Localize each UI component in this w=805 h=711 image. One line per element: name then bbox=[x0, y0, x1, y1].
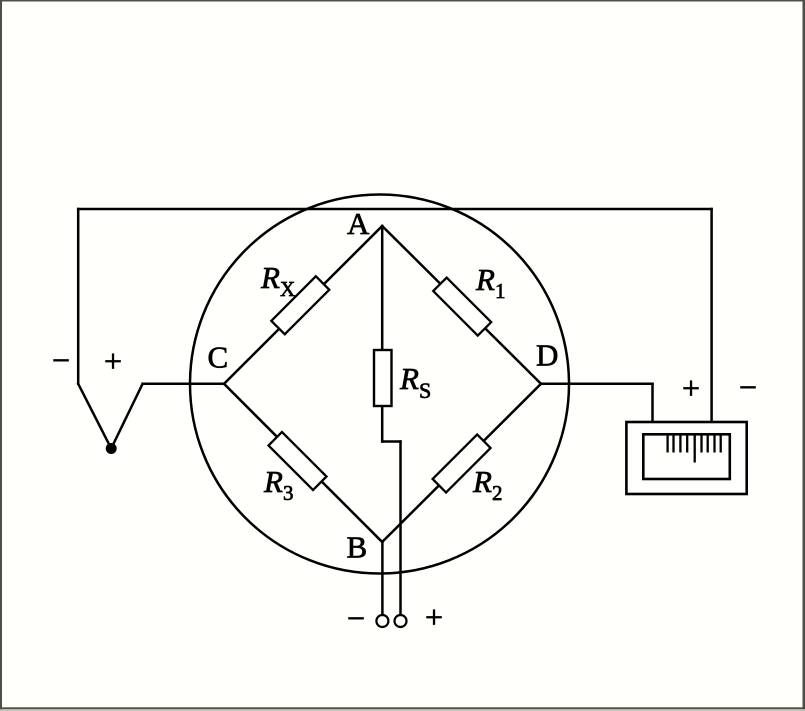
svg-text:D: D bbox=[536, 338, 558, 373]
resistor R1 body bbox=[433, 278, 491, 336]
svg-text:+: + bbox=[682, 370, 700, 406]
wire arm D to B bbox=[382, 384, 541, 542]
wire middle A down to Rs bbox=[381, 226, 384, 350]
wire down into meter left bbox=[651, 384, 654, 422]
svg-text:C: C bbox=[208, 340, 229, 375]
wire left horizontal to C bbox=[143, 383, 224, 386]
svg-text:A: A bbox=[347, 206, 370, 241]
window frame left border bbox=[0, 0, 2, 711]
window frame right border bbox=[803, 0, 805, 711]
resistor RX body bbox=[271, 276, 329, 334]
svg-text:B: B bbox=[347, 530, 368, 565]
wire left vertical bbox=[77, 209, 80, 384]
wire arm C to B bbox=[224, 384, 382, 542]
galvanometer inner box bbox=[643, 434, 730, 479]
wire jog horizontal bbox=[382, 440, 400, 443]
resistor R2 body bbox=[433, 435, 491, 493]
svg-text:−: − bbox=[739, 369, 757, 405]
resistor R3 body bbox=[269, 432, 327, 490]
bridge circle bbox=[190, 195, 569, 574]
wire Rs bottom to jog bbox=[381, 406, 384, 442]
galvanometer scale ticks bbox=[668, 436, 721, 463]
svg-text:+: + bbox=[425, 599, 443, 635]
wire B down to left terminal bbox=[381, 542, 384, 615]
wire right vertical into meter bbox=[710, 209, 713, 422]
svg-text:−: − bbox=[52, 342, 70, 378]
terminal circle left bbox=[376, 615, 388, 627]
resistor RS body bbox=[374, 350, 392, 406]
window frame bottom light strip bbox=[0, 709, 805, 711]
svg-text:+: + bbox=[104, 343, 122, 379]
wire jog down to right terminal bbox=[399, 442, 402, 616]
wire junction slant up bbox=[111, 384, 142, 449]
svg-text:−: − bbox=[347, 600, 365, 636]
wire arm A to D bbox=[382, 226, 541, 384]
wire top horizontal bbox=[78, 208, 711, 211]
galvanometer outer box bbox=[626, 422, 746, 494]
wire D to meter corner bbox=[541, 383, 653, 386]
wire arm C to A bbox=[224, 226, 382, 384]
junction dot bbox=[106, 443, 117, 454]
window frame bottom border bbox=[0, 707, 805, 709]
window frame top border bbox=[0, 0, 805, 2]
terminal circle right bbox=[395, 615, 407, 627]
wire left slant down to junction bbox=[78, 384, 111, 449]
